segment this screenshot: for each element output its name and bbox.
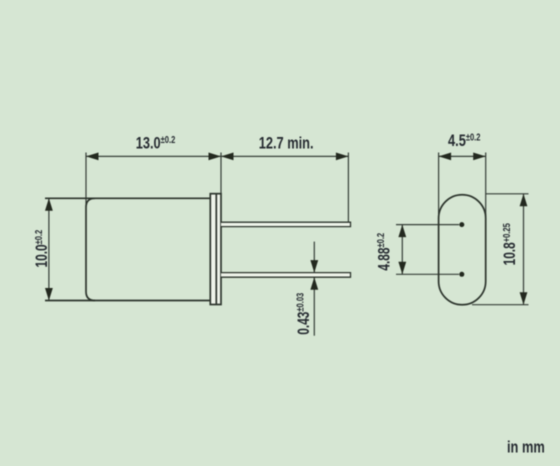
arrow 4.5 right — [473, 153, 486, 161]
crystal body bottom edge + extension — [45, 300, 210, 302]
crystal body left edge with corner arcs — [86, 198, 95, 300]
dimension 4.88 line — [401, 225, 403, 275]
lead 2 (bottom) — [221, 273, 351, 278]
wire: dim extension, lead end — [347, 153, 349, 222]
wire: dim extension, flange right — [220, 153, 222, 194]
dimension 12.7 line — [221, 155, 348, 157]
wire: ext 10.8 bottom — [472, 304, 529, 306]
flange rectangle — [210, 194, 221, 305]
wire: ext stadium left — [438, 153, 440, 220]
wire: ext lower dot — [396, 273, 459, 275]
lead dot upper — [459, 222, 464, 227]
arrow 10.0 top — [45, 198, 53, 211]
arrow 10.0 bottom — [45, 288, 53, 301]
wire: ext stadium right — [485, 153, 487, 220]
dimension 4.5 line — [439, 155, 486, 157]
flange middle line — [215, 194, 217, 305]
lead 1 (top) — [221, 222, 351, 226]
dimension 10.0 line — [48, 198, 50, 300]
arrow 13.0 right — [209, 153, 222, 161]
crystal body top edge + extension — [45, 197, 210, 199]
arrow 13.0 left — [86, 153, 99, 161]
wire: ext upper dot — [396, 224, 459, 226]
arrow 0.43 up — [310, 277, 318, 290]
arrow 4.5 left — [439, 153, 452, 161]
arrow 4.88 top — [398, 225, 406, 238]
arrow 0.43 down — [310, 260, 318, 273]
wire: ext 10.8 top — [486, 193, 529, 195]
arrow 12.7 right — [336, 153, 349, 161]
lead dot lower — [459, 272, 464, 277]
crystal outline end view (stadium) — [439, 195, 486, 305]
dimension 0.43 lower line — [313, 277, 315, 336]
dimension 0.43 upper line — [313, 242, 315, 273]
wire: dim extension, body left top — [85, 153, 87, 208]
svg-text:in mm: in mm — [507, 438, 545, 457]
arrow 10.8 bottom — [520, 292, 528, 305]
arrow 4.88 bottom — [398, 262, 406, 275]
dimension 13.0 line — [86, 155, 221, 157]
arrow 10.8 top — [520, 194, 528, 207]
dimension 10.8 line — [523, 194, 525, 305]
arrow 12.7 left — [221, 153, 234, 161]
svg-text:12.7 min.: 12.7 min. — [259, 134, 314, 153]
arrowheads left view — [45, 153, 348, 301]
